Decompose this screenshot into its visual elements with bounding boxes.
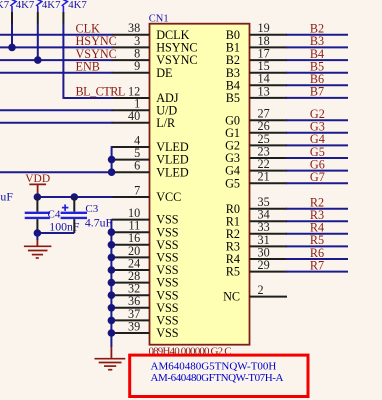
svg-text:BL_CTRL: BL_CTRL <box>76 85 125 99</box>
power VDD stub <box>37 184 39 197</box>
ground stub (VSS) <box>110 347 112 359</box>
pin 20 (VSS) lead <box>112 256 150 258</box>
wire net R6 <box>286 258 348 260</box>
pin 1 (U/D) lead <box>112 109 150 111</box>
wire net B2 <box>286 34 348 36</box>
pin 12 (ADJ) lead <box>112 97 150 99</box>
wire net B6 <box>286 84 348 86</box>
pin 19 (B0) lead <box>250 34 288 36</box>
pin 33 (R2) lead <box>250 233 288 235</box>
junction VSS 320.4 <box>108 317 116 325</box>
svg-text:21: 21 <box>258 170 270 184</box>
pin 25 (G2) lead <box>250 144 288 146</box>
pin 18 (B1) lead <box>250 46 288 48</box>
junction VSS 270.0 <box>108 266 116 274</box>
pin 21 (G5) lead <box>250 182 288 184</box>
pin 2 (NC) lead <box>250 296 288 298</box>
pin 17 (B2) lead <box>250 59 288 61</box>
pin 4 (VLED) lead <box>112 146 150 148</box>
wire net G7 <box>286 182 348 184</box>
capacitor C3 top lead <box>73 197 75 212</box>
capacitor C3 bottom lead <box>73 219 75 233</box>
svg-text:39: 39 <box>128 319 140 333</box>
resistor R-VSYNC lead <box>37 6 39 12</box>
svg-text:9: 9 <box>134 59 140 73</box>
svg-text:40: 40 <box>128 109 140 123</box>
pin 36 (VSS) lead <box>112 307 150 309</box>
svg-text:AM-640480GFTNQW-T07H-A: AM-640480GFTNQW-T07H-A <box>151 372 284 384</box>
junction VSS 244.8 <box>108 241 116 249</box>
svg-text:AM640480G5TNQW-T00H: AM640480G5TNQW-T00H <box>151 361 277 373</box>
wire VCC rail <box>37 196 112 198</box>
wire VLED feed <box>0 171 112 173</box>
pin 24 (VSS) lead <box>112 269 150 271</box>
wire net R2 <box>286 208 348 210</box>
ground bars (VSS) <box>95 358 126 360</box>
wire L/R <box>0 122 113 124</box>
svg-text:R5: R5 <box>226 265 240 279</box>
wire net B3 <box>286 46 348 48</box>
wire net R4 <box>286 233 348 235</box>
wire HSYNC <box>0 46 113 48</box>
svg-text:2: 2 <box>258 283 264 297</box>
wire net G4 <box>286 144 348 146</box>
pin 15 (B3) lead <box>250 72 288 74</box>
pin 13 (B5) lead <box>250 97 288 99</box>
svg-text:G7: G7 <box>310 170 325 184</box>
svg-text:29: 29 <box>258 258 270 272</box>
svg-text:R7: R7 <box>310 258 324 272</box>
svg-text:VDD: VDD <box>25 173 50 185</box>
junction VSS 307.8 <box>108 304 116 312</box>
wire BL_CTRL <box>63 97 112 99</box>
wire U/D <box>0 109 113 111</box>
junction VLED pin6 <box>108 168 116 176</box>
pin 27 (G0) lead <box>250 119 288 121</box>
svg-text:4.7uF: 4.7uF <box>85 216 113 230</box>
pin 23 (G3) lead <box>250 157 288 159</box>
capacitor C4 top lead <box>36 197 38 212</box>
pin 26 (G1) lead <box>250 132 288 134</box>
wire net G6 <box>286 170 348 172</box>
svg-text:4K7: 4K7 <box>0 0 10 11</box>
svg-text:CN1: CN1 <box>149 13 169 24</box>
pin 37 (VSS) lead <box>112 319 150 321</box>
resistor R-BL zigzag <box>59 0 68 6</box>
junction VSS 333.0 <box>108 329 116 337</box>
wire net B5 <box>286 72 348 74</box>
svg-text:L/R: L/R <box>156 116 176 130</box>
wire net G5 <box>286 157 348 159</box>
svg-text:B5: B5 <box>226 91 240 105</box>
svg-text:4K7: 4K7 <box>16 0 35 11</box>
junction VDD/C4 <box>34 193 42 201</box>
pin 11 (VSS) lead <box>112 231 150 233</box>
svg-text:7: 7 <box>134 183 140 197</box>
junction VLED pin5 <box>108 156 116 164</box>
junction VSS 232.2 <box>108 228 116 236</box>
capacitor C4 bottom lead <box>36 219 38 233</box>
pin 22 (G4) lead <box>250 170 288 172</box>
capacitor C3 plus sign <box>62 207 69 209</box>
pin 28 (VSS) lead <box>112 282 150 284</box>
junction VSS 282.6 <box>108 279 116 287</box>
capacitor C4 plates <box>25 212 50 214</box>
wire C4/C3 bottom <box>37 232 74 234</box>
pin 38 (DCLK) lead <box>112 34 150 36</box>
junction C4 ground tap <box>34 229 42 237</box>
pin 40 (L/R) lead <box>112 122 150 124</box>
junction VSS 257.4 <box>108 254 116 262</box>
wire net B7 <box>286 97 348 99</box>
wire resistor R-HSYNC to HSYNC <box>11 24 13 48</box>
wire VSYNC <box>0 59 113 61</box>
pin 30 (R4) lead <box>250 258 288 260</box>
svg-text:4.7uF: 4.7uF <box>0 190 13 204</box>
junction VSS 295.2 <box>108 291 116 299</box>
svg-text:6: 6 <box>134 159 140 173</box>
junction C3 <box>71 193 79 201</box>
svg-text:G5: G5 <box>225 176 240 190</box>
svg-text:VLED: VLED <box>156 165 189 179</box>
wire CLK <box>0 34 113 36</box>
svg-text:DE: DE <box>156 66 172 80</box>
power VDD bar <box>29 183 46 185</box>
connector CN1 body <box>150 24 250 345</box>
svg-text:B7: B7 <box>310 85 324 99</box>
pin 34 (R1) lead <box>250 220 288 222</box>
ground bars (C4) <box>24 245 52 247</box>
wire net R5 <box>286 245 348 247</box>
highlight box <box>130 355 308 396</box>
ground stub (C4) <box>36 233 38 240</box>
svg-text:VSS: VSS <box>156 326 179 340</box>
pin 35 (R0) lead <box>250 208 288 210</box>
pin 5 (VLED) lead <box>112 159 150 161</box>
pin 9 (DE) lead <box>112 72 150 74</box>
pin 8 (VSYNC) lead <box>112 59 150 61</box>
svg-text:13: 13 <box>258 84 270 98</box>
wire ENB <box>0 72 113 74</box>
wire net R3 <box>286 220 348 222</box>
svg-text:100nF: 100nF <box>49 219 80 233</box>
wire resistor R-BL down to BL_CTRL <box>62 24 64 99</box>
pin 3 (HSYNC) lead <box>112 46 150 48</box>
pin 31 (R3) lead <box>250 245 288 247</box>
wire VLED bus vertical <box>111 146 113 173</box>
pin 7 (VCC) lead <box>112 196 150 198</box>
resistor R-HSYNC lead <box>11 6 13 12</box>
wire VSS bus vertical <box>110 220 112 347</box>
resistor R-HSYNC zigzag <box>8 0 17 6</box>
pin 39 (VSS) lead <box>112 332 150 334</box>
junction HSYNC <box>8 44 16 52</box>
svg-text:VCC: VCC <box>156 190 181 204</box>
svg-text:4K7: 4K7 <box>42 0 61 11</box>
pin 6 (VLED) lead <box>112 171 150 173</box>
wire resistor R-VSYNC to VSYNC <box>37 24 39 61</box>
wire net R7 <box>286 271 348 273</box>
pin 32 (VSS) lead <box>112 294 150 296</box>
junction VSYNC <box>34 56 42 64</box>
svg-text:ENB: ENB <box>76 60 100 74</box>
resistor R-VSYNC zigzag <box>33 0 42 6</box>
svg-text:4K7: 4K7 <box>68 0 87 11</box>
pin 16 (VSS) lead <box>112 244 150 246</box>
wire net B4 <box>286 59 348 61</box>
svg-text:NC: NC <box>223 290 240 304</box>
wire net G2 <box>286 119 348 121</box>
svg-text:C3: C3 <box>85 203 98 215</box>
pin 14 (B4) lead <box>250 84 288 86</box>
pin 29 (R5) lead <box>250 271 288 273</box>
wire net G3 <box>286 132 348 134</box>
capacitor C3 plates <box>61 212 87 214</box>
pin 10 (VSS) lead <box>112 219 150 221</box>
resistor R-BL lead <box>62 6 64 12</box>
